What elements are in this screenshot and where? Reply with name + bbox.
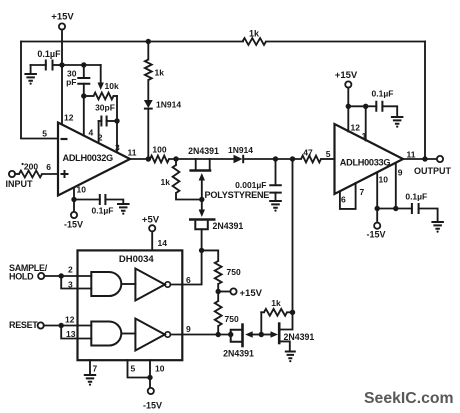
resistor 100 (150, 156, 169, 163)
svg-text:-15V: -15V (64, 220, 83, 230)
AND gate A1 (91, 272, 121, 296)
svg-text:12: 12 (64, 113, 74, 123)
resistor 1k (264, 309, 287, 316)
svg-text:1k: 1k (155, 68, 165, 78)
node +15V decoupling junction (59, 62, 64, 67)
wire pin 10 to -15V (376, 173, 378, 209)
svg-text:9: 9 (398, 168, 403, 178)
svg-text:ADLH0033G: ADLH0033G (340, 158, 391, 168)
inverter A2 (135, 319, 164, 351)
wire pin 5 (128, 360, 151, 377)
resistor 200 (15, 173, 19, 175)
10k wiper arrow (100, 65, 102, 83)
svg-text:+15V: +15V (240, 288, 263, 299)
svg-text:POLYSTYRENE: POLYSTYRENE (205, 190, 270, 200)
ground (U2 -15V cap) (431, 222, 444, 229)
resistor 1k (145, 60, 152, 81)
svg-text:7: 7 (360, 187, 365, 197)
svg-text:2N4391: 2N4391 (188, 146, 219, 156)
svg-text:3: 3 (68, 280, 73, 290)
svg-text:1k: 1k (271, 298, 281, 308)
svg-text:7: 7 (93, 364, 98, 374)
svg-text:13: 13 (66, 329, 76, 339)
driver U3 DH0034 (78, 250, 183, 360)
wire pin 9 out (170, 334, 230, 336)
resistor 200 (19, 171, 42, 178)
wire pin 14 (151, 231, 153, 250)
svg-text:1N914: 1N914 (156, 100, 181, 110)
svg-text:2N4391: 2N4391 (213, 221, 244, 231)
svg-text:10: 10 (379, 175, 389, 185)
resistor 10k (94, 93, 114, 100)
svg-text:10: 10 (77, 185, 87, 195)
svg-text:6: 6 (341, 195, 346, 205)
svg-text:30pF: 30pF (95, 103, 115, 113)
wire top feedback rail right of 1k (266, 41, 425, 43)
wire pin 10 to -15V (149, 360, 151, 388)
svg-text:5: 5 (131, 364, 136, 374)
svg-text:1k: 1k (161, 177, 171, 187)
svg-text:+15V: +15V (335, 70, 358, 81)
wire pin 10 to -15V (73, 188, 75, 212)
wire to 750 pullup (202, 250, 219, 261)
svg-text:750: 750 (227, 267, 241, 277)
svg-text:5: 5 (42, 129, 47, 139)
svg-text:ADLH0032G: ADLH0032G (63, 153, 114, 163)
wire pin 9 drop (395, 163, 397, 209)
wire pin 12 supply drop (61, 65, 63, 125)
wire pin 6 out (170, 250, 201, 284)
wire long vertical to clamp (292, 159, 294, 313)
ground (hold cap) (269, 201, 282, 208)
svg-text:0.1µF: 0.1µF (37, 49, 61, 59)
wire 1k/1N914 feedback branch vertical (147, 42, 149, 60)
op-amp U1 ADLH0032G (58, 123, 130, 196)
svg-text:OUTPUT: OUTPUT (414, 166, 452, 176)
resistor 750 (215, 301, 222, 326)
resistor 1k (173, 165, 180, 193)
wire +15V down to decoupling node (61, 30, 63, 65)
wire pin 1 drop (365, 106, 367, 140)
svg-text:2: 2 (98, 133, 103, 143)
svg-text:9: 9 (186, 324, 191, 334)
resistor 750 (215, 261, 222, 284)
svg-text:3: 3 (115, 143, 120, 153)
+15V terminal (mid) (218, 291, 230, 293)
svg-text:+15V: +15V (51, 12, 74, 23)
svg-text:100: 100 (152, 145, 166, 155)
wire top feedback rail (21, 41, 243, 43)
svg-text:SeekIC.com: SeekIC.com (364, 390, 454, 407)
svg-text:pF: pF (66, 77, 76, 87)
svg-text:+5V: +5V (142, 215, 160, 226)
ground (U2 +15V cap) (391, 117, 404, 124)
wire pin 12 drop (347, 106, 349, 131)
wire feedback vertical right (424, 42, 426, 160)
buffer U2 ADLH0033G (335, 124, 404, 194)
wire pin 7 to ground (89, 360, 91, 374)
AND gate A2 (91, 322, 121, 346)
svg-text:6: 6 (186, 275, 191, 285)
svg-text:2N4391: 2N4391 (223, 349, 254, 359)
resistor 1k (Q4 gate-drain) (260, 312, 262, 334)
svg-text:47: 47 (303, 148, 313, 158)
wire to 30pF node (62, 64, 84, 66)
svg-text:11: 11 (128, 148, 137, 158)
svg-text:0.1µF: 0.1µF (405, 192, 427, 202)
wire feedback left loop to pin 5 (21, 42, 58, 139)
ground (pin 7) (84, 375, 96, 382)
wire 10k right end down to pin 3 (116, 96, 118, 152)
OUTPUT terminal (403, 158, 437, 160)
svg-text:1k: 1k (249, 29, 260, 39)
wire op amp output (130, 158, 150, 160)
svg-text:-15V: -15V (143, 401, 162, 411)
svg-text:INPUT: INPUT (6, 179, 34, 189)
resistor 1k (Q1 gate) (175, 159, 177, 165)
wire pin 4 drop (83, 96, 85, 136)
svg-text:DH0034: DH0034 (119, 254, 155, 265)
svg-text:11: 11 (407, 150, 416, 160)
svg-text:10: 10 (155, 364, 165, 374)
svg-text:RESET: RESET (9, 320, 38, 330)
svg-text:-15V: -15V (366, 230, 385, 240)
svg-text:12: 12 (65, 315, 75, 325)
svg-text:0.001µF: 0.001µF (235, 180, 266, 190)
wire to 10k wiper (84, 64, 101, 66)
ground (Q4 source) (285, 352, 296, 359)
diode 1N914 (vertical) (144, 100, 153, 108)
svg-text:0.1µF: 0.1µF (92, 206, 114, 216)
svg-text:14: 14 (158, 238, 168, 248)
svg-text:HOLD: HOLD (9, 272, 34, 282)
ground (pin10 cap) (117, 204, 130, 211)
wire U2 pins 6-7 loop (340, 183, 356, 209)
svg-text:10k: 10k (105, 81, 119, 91)
inverter A1 (135, 269, 164, 301)
resistor 47 (301, 156, 321, 163)
svg-text:0.1µF: 0.1µF (372, 89, 394, 99)
svg-text:750: 750 (225, 314, 239, 324)
svg-text:2: 2 (68, 265, 73, 275)
svg-text:12: 12 (351, 123, 361, 133)
svg-text:1N914: 1N914 (228, 145, 253, 155)
resistor 1k (243, 38, 267, 45)
svg-text:4: 4 (89, 128, 94, 138)
ground (0.1uF left) (24, 74, 37, 81)
svg-text:6: 6 (46, 162, 51, 172)
svg-text:5: 5 (326, 149, 331, 159)
